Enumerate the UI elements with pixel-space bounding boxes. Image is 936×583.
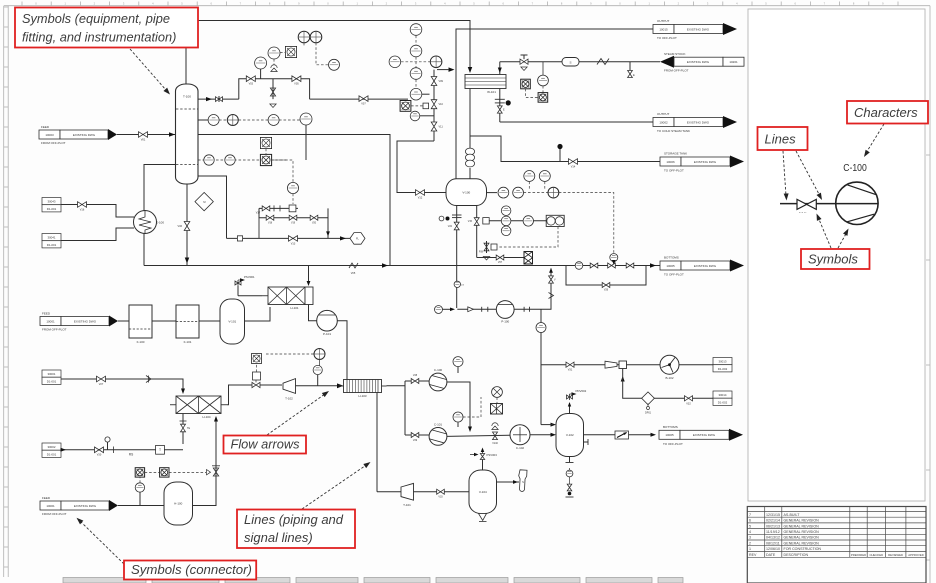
svg-text:EXISTING DWG: EXISTING DWG bbox=[693, 433, 716, 437]
svg-text:V140: V140 bbox=[492, 442, 498, 445]
svg-text:D1-001: D1-001 bbox=[47, 207, 57, 211]
svg-text:30002: 30002 bbox=[47, 445, 55, 449]
svg-text:V01: V01 bbox=[141, 138, 146, 142]
svg-text:10006: 10006 bbox=[666, 160, 675, 164]
damper box bbox=[619, 361, 627, 369]
filter F-100 bbox=[129, 305, 152, 338]
leader to symbols callout bbox=[130, 49, 166, 90]
valve V140 with funnel bbox=[492, 423, 498, 430]
wire bottoms drop into H-101 top bbox=[308, 266, 310, 284]
valve V27 bbox=[97, 376, 106, 382]
svg-text:10001: 10001 bbox=[46, 319, 55, 323]
svg-text:10201: 10201 bbox=[729, 60, 738, 64]
wire feed to F-100 bbox=[118, 320, 129, 322]
steam trap drop with tag E bbox=[629, 62, 631, 70]
valve with actuator on steam line bbox=[520, 59, 528, 64]
relief PDV002 over V-102 bbox=[569, 403, 571, 414]
valve V33 bbox=[437, 489, 445, 494]
flow arrow from 30002 bbox=[61, 448, 67, 452]
wire 30001 to H-104 bbox=[61, 379, 183, 392]
svg-text:EXISTING DWG: EXISTING DWG bbox=[74, 319, 97, 323]
line break on riser bbox=[549, 293, 554, 299]
wire T-100 bottom outlet bbox=[186, 184, 188, 266]
svg-text:V07: V07 bbox=[498, 261, 503, 264]
svg-text:H-101: H-101 bbox=[290, 306, 299, 310]
flow arrow into V-102 lower bbox=[551, 433, 557, 437]
valve on condensate drop bbox=[497, 106, 502, 113]
flow arrow to BOTTOMS bbox=[650, 263, 656, 268]
svg-text:REVIEWED: REVIEWED bbox=[888, 553, 903, 557]
svg-text:STEAM STOCK: STEAM STOCK bbox=[664, 52, 685, 56]
title block revision table bbox=[747, 507, 926, 583]
svg-text:V09: V09 bbox=[439, 80, 444, 83]
svg-text:APPROVED: APPROVED bbox=[908, 553, 924, 557]
valve V04 bbox=[292, 76, 301, 82]
svg-text:Lines (piping and: Lines (piping and bbox=[244, 512, 344, 527]
bypass below bottoms header bbox=[566, 266, 646, 286]
svg-text:V26: V26 bbox=[604, 289, 609, 292]
connector BOTTOMS 10005 upper bbox=[660, 261, 681, 270]
instrument circle over T-102 outlet bbox=[317, 375, 319, 386]
svg-text:3: 3 bbox=[749, 536, 751, 540]
expansion bellows on V-100 feed leg bbox=[465, 148, 474, 155]
exchanger H-103 hatched bbox=[339, 385, 344, 387]
leader from Lines to pipe after valve bbox=[796, 151, 820, 196]
svg-text:F-101: F-101 bbox=[184, 340, 192, 344]
svg-text:10005: 10005 bbox=[666, 264, 675, 268]
valve V03 bbox=[246, 76, 255, 82]
gauge pair circles bbox=[298, 31, 310, 43]
svg-text:V33: V33 bbox=[438, 495, 443, 498]
svg-text:V22: V22 bbox=[448, 225, 453, 228]
wire C-101 outlet to C-102 bbox=[447, 435, 510, 436]
svg-text:V19: V19 bbox=[291, 222, 296, 224]
instrument circle TI inline bbox=[536, 323, 546, 333]
flow arrow into H-104 bbox=[181, 389, 185, 395]
callout box symbols connector bbox=[124, 561, 256, 580]
instrument square PC bbox=[285, 46, 296, 57]
svg-text:T: T bbox=[159, 448, 161, 452]
reducer T-101 bbox=[401, 483, 414, 500]
legend valve bbox=[797, 199, 816, 209]
valve V09 bbox=[431, 77, 437, 86]
flow arrow on side draw bbox=[206, 97, 212, 101]
wire V-100 second drop w/ valve V15 bbox=[476, 206, 478, 258]
svg-text:AS-BUILT: AS-BUILT bbox=[784, 513, 801, 517]
flow arrow down x470 bbox=[468, 427, 472, 433]
svg-text:fitting, and instrumentation): fitting, and instrumentation) bbox=[22, 29, 176, 44]
wire H-101 bottom to P-101 suction bbox=[309, 305, 317, 321]
svg-text:E: E bbox=[633, 73, 635, 77]
svg-text:5: 5 bbox=[749, 524, 751, 528]
V-102 bottom drain train bbox=[569, 457, 571, 463]
steam separator capsule S bbox=[562, 58, 579, 67]
svg-text:6: 6 bbox=[749, 519, 751, 523]
svg-text:GENERAL REVISION: GENERAL REVISION bbox=[784, 524, 820, 528]
svg-text:EXISTING DWG: EXISTING DWG bbox=[687, 60, 710, 64]
svg-text:GENERAL REVISION: GENERAL REVISION bbox=[784, 541, 820, 545]
svg-text:12/31/15: 12/31/15 bbox=[766, 513, 780, 517]
valve V14 on storage line bbox=[569, 159, 578, 165]
connector OUTPUT 10002 bbox=[653, 118, 674, 127]
solenoid box bbox=[423, 103, 429, 109]
svg-text:V16: V16 bbox=[80, 209, 85, 212]
V-104 cone drain bbox=[479, 514, 487, 521]
valve V30 bbox=[95, 447, 104, 453]
connector STEAM STOCK from off-plot bbox=[660, 56, 674, 68]
callout box flow arrows bbox=[224, 436, 307, 454]
wire V-102 outlet to BOTTOMS 10005 bbox=[584, 434, 616, 436]
blower C-100 bbox=[429, 373, 447, 391]
wire P-100 discharge branch down to V-102/B-102 header bbox=[540, 309, 542, 424]
instrument column x416 over column bbox=[410, 24, 422, 36]
check valve V02 bbox=[216, 97, 223, 102]
svg-text:04/13/12: 04/13/12 bbox=[766, 536, 780, 540]
bottoms header main line bbox=[144, 265, 660, 267]
svg-text:Flow arrows: Flow arrows bbox=[231, 436, 301, 451]
wire F-100 to F-101 bbox=[152, 320, 176, 322]
flow arrow into V-102 upper bbox=[551, 423, 557, 427]
flow arrow bypass bbox=[326, 231, 330, 236]
wire reflux manifold upper header y79 bbox=[239, 79, 310, 99]
wire V-101 to H-101 shell bbox=[245, 307, 271, 321]
svg-text:TO OFF-PLOT: TO OFF-PLOT bbox=[663, 442, 683, 446]
svg-text:PDV002: PDV002 bbox=[576, 389, 587, 393]
flow arrow into sample pot bbox=[513, 480, 518, 484]
drum V-104 bbox=[469, 470, 497, 514]
connector FEED 10003 bbox=[39, 130, 60, 139]
svg-text:FEED: FEED bbox=[41, 125, 50, 129]
V-100 boot instruments bbox=[456, 206, 458, 309]
seal pot stem with ball bbox=[107, 442, 109, 450]
svg-text:V-102: V-102 bbox=[566, 433, 574, 437]
blower C-101 bbox=[429, 428, 447, 446]
svg-text:V03: V03 bbox=[249, 83, 254, 86]
svg-text:EXISTING DWG: EXISTING DWG bbox=[694, 264, 717, 268]
wire F-101 to V-101 bbox=[199, 320, 220, 322]
trap square T bbox=[156, 445, 165, 454]
connector box 30001 bbox=[42, 370, 61, 377]
instrument riser on feed line bbox=[139, 492, 141, 505]
callout box lines piping bbox=[237, 510, 355, 549]
svg-text:V30: V30 bbox=[97, 454, 102, 457]
wire manifold to V-100 inlet bbox=[397, 141, 446, 193]
svg-text:V31: V31 bbox=[568, 369, 573, 372]
svg-text:FEED: FEED bbox=[42, 496, 51, 500]
flow arrow into H-103 (callout target) bbox=[337, 383, 344, 388]
svg-text:7: 7 bbox=[749, 513, 751, 517]
callout box symbols equipment bbox=[15, 8, 198, 48]
valve V07b bbox=[496, 255, 504, 260]
svg-text:C-100: C-100 bbox=[434, 368, 443, 372]
valve V12 on V-100 inlet bbox=[416, 190, 425, 196]
flow arrow on bottoms at x387 bbox=[382, 263, 388, 268]
gauge circles over V-100 bbox=[524, 171, 535, 182]
dashed loop to control valve F08 bbox=[498, 227, 559, 248]
leader lines callout bbox=[302, 465, 367, 510]
wire P-101 discharge down to H-103 bbox=[337, 321, 347, 380]
relief PSV001 bbox=[235, 282, 241, 284]
svg-text:30001: 30001 bbox=[47, 372, 55, 376]
leader from Characters to C-100 text bbox=[866, 124, 884, 153]
valve on P-100 riser bbox=[549, 276, 554, 283]
wire B-102 to 30013 bbox=[679, 364, 713, 366]
valve F08 vertical bbox=[484, 243, 489, 251]
svg-text:V10: V10 bbox=[439, 103, 444, 106]
svg-text:S: S bbox=[522, 480, 524, 484]
svg-text:B-102: B-102 bbox=[665, 376, 673, 380]
level instruments row under T-100 top bbox=[208, 115, 219, 126]
svg-text:10005: 10005 bbox=[665, 433, 674, 437]
hatched inline instrument bbox=[491, 404, 503, 415]
exchanger H-104 crossed bbox=[170, 404, 176, 406]
valve V13 lower line bbox=[289, 236, 298, 242]
connector box 30043 bbox=[42, 198, 61, 205]
flow arrow on output header bbox=[449, 67, 455, 72]
svg-text:EXISTING DWG: EXISTING DWG bbox=[687, 27, 710, 31]
flow arrow into bottoms header bbox=[185, 258, 190, 264]
steam stock supply line bbox=[500, 61, 660, 63]
valve V01 on feed line bbox=[139, 132, 148, 138]
exchanger W-101 tube bundle bbox=[465, 75, 506, 89]
drum H-100 bbox=[164, 482, 193, 525]
filter F-101 bbox=[176, 305, 199, 338]
svg-text:10015: 10015 bbox=[659, 27, 668, 31]
svg-text:BOTTOMS: BOTTOMS bbox=[663, 425, 678, 429]
svg-text:V32: V32 bbox=[686, 402, 691, 405]
wire 30043 to E-100 bbox=[61, 205, 134, 218]
relief PSV003 bbox=[482, 460, 484, 471]
wire T-100 overhead line to top header bbox=[186, 21, 470, 86]
wire T-102 to H-103 bbox=[296, 385, 340, 387]
svg-text:GENERAL REVISION: GENERAL REVISION bbox=[784, 519, 820, 523]
svg-text:signal lines): signal lines) bbox=[244, 530, 313, 545]
instrument circles over blowers bbox=[457, 367, 459, 373]
svg-text:06/21/13: 06/21/13 bbox=[766, 524, 780, 528]
vent riser with ball bbox=[559, 149, 561, 162]
control station right of V-100 bbox=[483, 218, 489, 224]
svg-text:P-100: P-100 bbox=[501, 319, 509, 323]
svg-text:DATE: DATE bbox=[766, 553, 776, 557]
wire P-100 discharge riser bbox=[523, 307, 525, 312]
wire H-100 outlet to H-104 bbox=[193, 417, 217, 506]
wire H-101 to V-100 drop leg bbox=[469, 88, 471, 149]
svg-text:12/06/10: 12/06/10 bbox=[766, 547, 780, 551]
svg-text:W-101: W-101 bbox=[487, 90, 496, 94]
connector box 30014 bbox=[713, 391, 732, 398]
fan B-102 bbox=[660, 355, 679, 374]
svg-text:10003: 10003 bbox=[45, 133, 54, 137]
svg-text:H-100: H-100 bbox=[174, 502, 183, 506]
valve V31 bbox=[566, 362, 574, 367]
wire condensate to OUTPUT 10002 bbox=[500, 121, 653, 123]
drum V-102 bbox=[556, 414, 584, 457]
connector STORAGE TANK 10006 bbox=[660, 157, 681, 166]
V-100 gauge stubs bbox=[528, 179, 530, 181]
valve manifold column x434 bbox=[433, 70, 435, 141]
exchanger H-101 crossed bbox=[262, 295, 268, 297]
instrument circle with X bbox=[492, 387, 503, 398]
svg-text:FROM OFF-PLOT: FROM OFF-PLOT bbox=[42, 512, 67, 516]
svg-text:V11: V11 bbox=[439, 126, 444, 129]
svg-text:V18: V18 bbox=[268, 222, 273, 224]
svg-text:DESCRIPTION: DESCRIPTION bbox=[784, 553, 809, 557]
svg-text:FROM OFF-PLOT: FROM OFF-PLOT bbox=[664, 69, 689, 73]
valve V20 bbox=[310, 215, 318, 220]
svg-text:V-104: V-104 bbox=[479, 490, 487, 494]
flow arrow into T-100 bbox=[169, 132, 175, 137]
svg-text:M: M bbox=[203, 200, 205, 204]
svg-text:08/12/11: 08/12/11 bbox=[766, 541, 780, 545]
svg-text:Symbols (equipment, pipe: Symbols (equipment, pipe bbox=[22, 11, 170, 26]
wire feed to H-100 bbox=[118, 505, 164, 507]
svg-text:LG: LG bbox=[461, 285, 464, 287]
legend pipe line bbox=[780, 203, 878, 205]
svg-text:V-101: V-101 bbox=[228, 320, 236, 324]
svg-text:V27: V27 bbox=[99, 383, 104, 386]
svg-text:OUTPUT: OUTPUT bbox=[657, 112, 670, 116]
level glass circle bbox=[454, 281, 460, 287]
svg-text:D1-001: D1-001 bbox=[47, 379, 57, 383]
valve V11 bbox=[431, 122, 437, 131]
eductor nozzle bbox=[605, 361, 617, 368]
valve V24 bbox=[608, 263, 616, 268]
svg-text:30043: 30043 bbox=[47, 200, 55, 204]
svg-text:EXISTING DWG: EXISTING DWG bbox=[74, 504, 97, 508]
line break on steam line bbox=[597, 59, 609, 65]
svg-text:Lines: Lines bbox=[765, 131, 797, 146]
wire damper bypass to 30014 bbox=[623, 369, 713, 399]
dashed level control loop to bottoms valve bbox=[559, 193, 614, 253]
svg-text:PREPARED: PREPARED bbox=[851, 553, 866, 557]
legend compressor C-100 circle bbox=[836, 182, 878, 224]
valve V25 bbox=[626, 263, 634, 268]
svg-text:V15: V15 bbox=[468, 220, 473, 223]
connector FEED 10001 (middle) bbox=[40, 317, 61, 326]
svg-text:FEED: FEED bbox=[42, 312, 51, 316]
valve on V-100 bottoms leg bbox=[454, 222, 459, 230]
svg-text:OUTPUT: OUTPUT bbox=[657, 19, 670, 23]
svg-text:Symbols: Symbols bbox=[808, 251, 858, 266]
drum V-100 bbox=[446, 179, 487, 206]
flow arrow suction bbox=[450, 308, 455, 312]
valve V18 bbox=[266, 215, 274, 220]
control valve with thermowell stem bbox=[270, 88, 275, 96]
bottoms header right portion fittings bbox=[575, 262, 583, 270]
dashed lateral with side instruments bbox=[401, 61, 430, 63]
svg-text:FROM OFF-PLOT: FROM OFF-PLOT bbox=[41, 141, 66, 145]
wire V-104 to sample pot bbox=[497, 481, 520, 483]
svg-text:C-101: C-101 bbox=[434, 423, 443, 427]
svg-text:1: 1 bbox=[749, 547, 751, 551]
connector box 30002 bbox=[42, 443, 61, 450]
flow arrow into W-101 bbox=[498, 68, 502, 74]
wire H-103 outlet split to C-100/C-101 bbox=[387, 381, 406, 386]
svg-text:GENERAL REVISION: GENERAL REVISION bbox=[784, 536, 820, 540]
svg-text:10002: 10002 bbox=[659, 120, 668, 124]
svg-text:F08: F08 bbox=[479, 251, 484, 254]
instrument bubble on suction bbox=[435, 306, 443, 314]
dual transmitter box bbox=[546, 215, 564, 226]
valve V28 bbox=[411, 379, 419, 384]
pump C-102 bbox=[510, 425, 530, 445]
svg-text:P-101: P-101 bbox=[323, 332, 331, 336]
svg-text:V05: V05 bbox=[294, 83, 299, 86]
connector box 30013 bbox=[713, 358, 732, 365]
callout box Characters bbox=[847, 101, 928, 124]
svg-text:EXISTING DWG: EXISTING DWG bbox=[687, 120, 710, 124]
reboiler E-100 bbox=[134, 211, 157, 234]
svg-text:FROM OFF-PLOT: FROM OFF-PLOT bbox=[42, 328, 67, 332]
feed line FROM OFF-PLOT 10003 into T-100 bbox=[117, 134, 176, 136]
svg-text:10001: 10001 bbox=[46, 504, 55, 508]
sample canister bbox=[518, 470, 527, 492]
svg-text:S: S bbox=[569, 60, 571, 64]
svg-text:V14: V14 bbox=[571, 166, 576, 169]
inline tick bbox=[237, 236, 242, 241]
inline mixer crossed box bbox=[524, 252, 533, 265]
wire C-100 outlet loop down bbox=[447, 382, 470, 430]
svg-text:PSV001: PSV001 bbox=[244, 275, 255, 279]
svg-text:V28: V28 bbox=[413, 374, 418, 377]
svg-text:TO OFF-PLOT: TO OFF-PLOT bbox=[657, 36, 677, 40]
instrument circle on dashed drop bbox=[198, 159, 288, 161]
thermowell circle TW bbox=[255, 57, 267, 69]
svg-text:REV: REV bbox=[749, 553, 757, 557]
valve V29 bbox=[411, 433, 419, 438]
svg-text:V29: V29 bbox=[413, 439, 418, 442]
flow arrow into H-101 top bbox=[468, 67, 473, 73]
pump P-101 bbox=[317, 310, 338, 331]
valve V16 bbox=[78, 202, 87, 208]
svg-text:2: 2 bbox=[749, 541, 751, 545]
svg-text:F-100: F-100 bbox=[137, 340, 145, 344]
flow arrow to bottoms box bbox=[651, 433, 657, 437]
wire H-104 bottom drop with valves bbox=[182, 414, 184, 445]
wire storage tank line bbox=[470, 136, 660, 162]
wire steam header into W-101 bbox=[499, 62, 501, 75]
wire C-102 to V-102 bbox=[530, 434, 553, 436]
svg-text:Symbols (connector): Symbols (connector) bbox=[131, 562, 252, 577]
wire V-100 bottoms to P-100 bbox=[457, 308, 496, 310]
svg-text:EXISTING DWG: EXISTING DWG bbox=[694, 160, 717, 164]
instrument circle TI above control valve bbox=[268, 47, 280, 59]
callout box Lines bbox=[758, 127, 808, 150]
svg-text:30041: 30041 bbox=[47, 236, 55, 240]
svg-text:02/21/14: 02/21/14 bbox=[766, 519, 780, 523]
svg-text:DP01: DP01 bbox=[645, 412, 652, 415]
flow element with arrow bbox=[615, 431, 629, 439]
svg-text:T-100: T-100 bbox=[183, 95, 191, 99]
condensate pot symbol bbox=[499, 89, 501, 123]
instrument squares stacked bbox=[260, 137, 271, 148]
svg-text:C-102: C-102 bbox=[516, 446, 525, 450]
svg-text:EXISTING DWG: EXISTING DWG bbox=[73, 133, 96, 137]
wire header to B-102 bbox=[541, 364, 661, 366]
svg-text:TO COLD STEAM TANK: TO COLD STEAM TANK bbox=[657, 129, 690, 133]
svg-text:TO OFF-PLOT: TO OFF-PLOT bbox=[664, 169, 684, 173]
svg-text:D1-002: D1-002 bbox=[718, 400, 728, 404]
leaders from Symbols bbox=[818, 217, 831, 248]
valve V23 bbox=[590, 263, 598, 268]
svg-text:V-100: V-100 bbox=[462, 190, 470, 194]
svg-text:11/19/12: 11/19/12 bbox=[766, 530, 780, 534]
svg-text:D1-001: D1-001 bbox=[47, 243, 57, 247]
connector OUTPUT 10015 bbox=[653, 25, 674, 34]
wire T-100 top product line east to drop at x390 bbox=[198, 135, 390, 266]
svg-text:T-102: T-102 bbox=[285, 397, 293, 401]
svg-text:D1-001: D1-001 bbox=[47, 452, 57, 456]
